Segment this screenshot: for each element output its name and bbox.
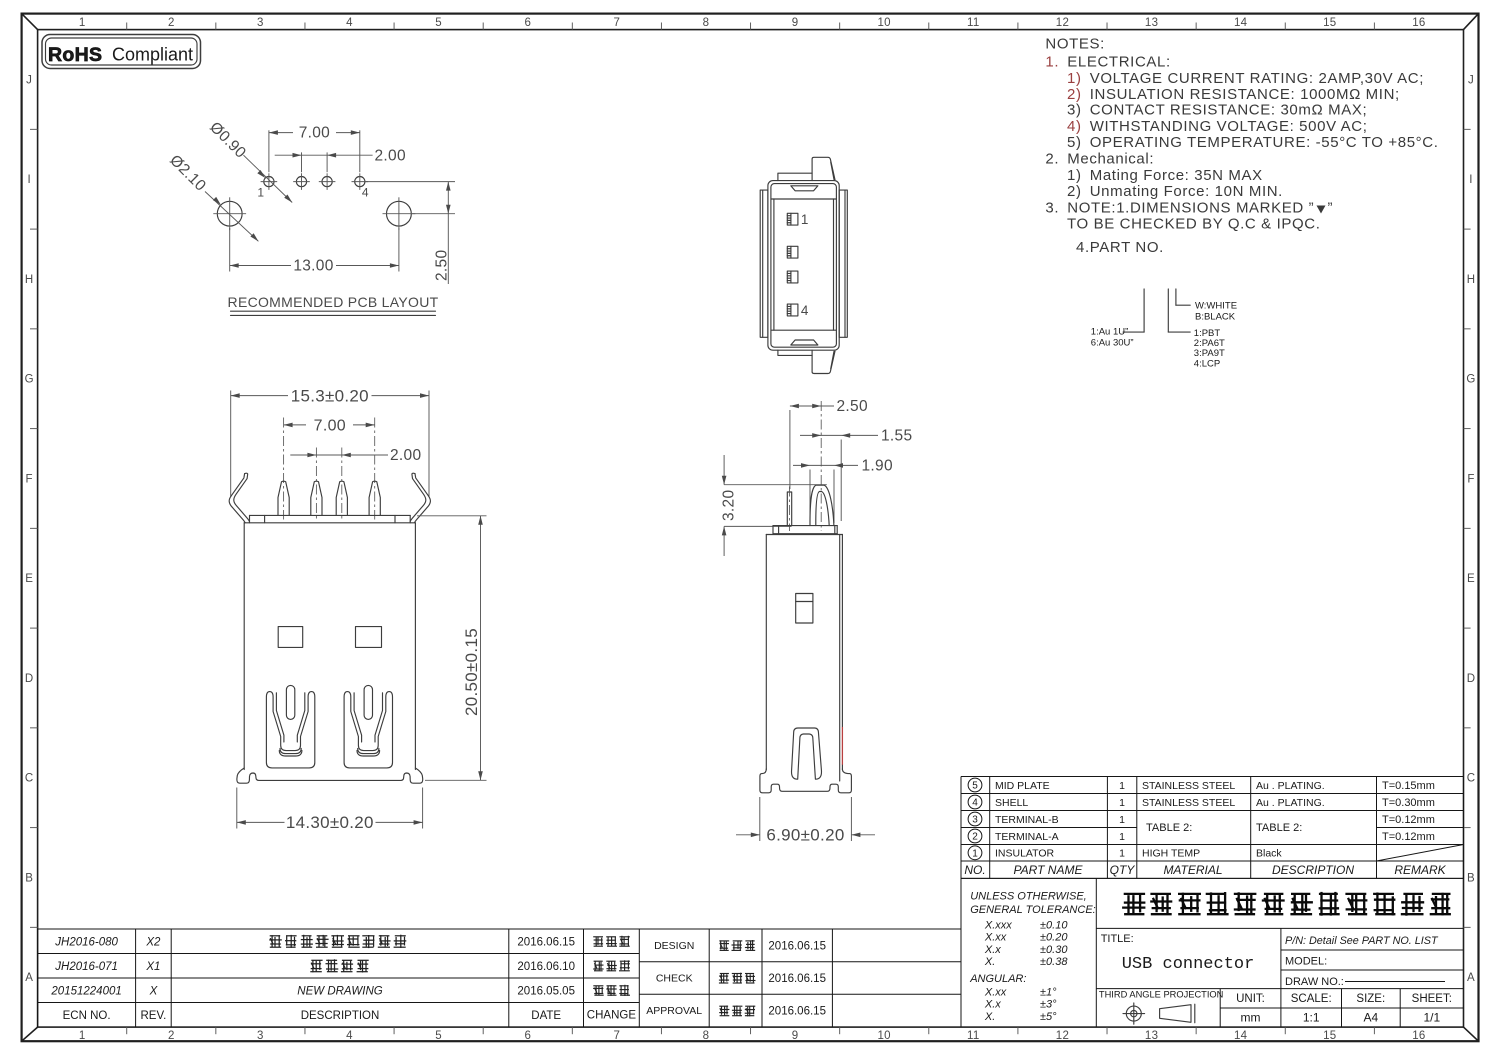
svg-text:Compliant: Compliant	[112, 45, 193, 65]
svg-text:14.30±0.20: 14.30±0.20	[286, 813, 374, 832]
svg-text:THIRD ANGLE PROJECTION: THIRD ANGLE PROJECTION	[1099, 989, 1224, 999]
svg-text:3) CONTACT RESISTANCE: 30mΩ MA: 3) CONTACT RESISTANCE: 30mΩ MAX;	[1067, 102, 1367, 119]
svg-text:2.50: 2.50	[434, 250, 451, 281]
svg-text:±3°: ±3°	[1040, 999, 1057, 1011]
svg-text:APPROVAL: APPROVAL	[646, 1005, 702, 1017]
svg-text:B: B	[1467, 873, 1475, 885]
svg-text:TABLE 2:: TABLE 2:	[1256, 822, 1302, 834]
remark diagonal	[1377, 845, 1464, 862]
part number legend	[1143, 289, 1145, 332]
svg-text:2.00: 2.00	[375, 147, 406, 164]
check-mark triangle symbol	[1317, 206, 1326, 214]
svg-text:4: 4	[972, 798, 978, 809]
svg-text:TO BE CHECKED BY Q.C & IPQC.: TO BE CHECKED BY Q.C & IPQC.	[1067, 216, 1321, 233]
svg-text:1: 1	[79, 17, 86, 29]
svg-text:±0.30: ±0.30	[1040, 944, 1068, 956]
svg-text:16: 16	[1412, 1030, 1425, 1042]
svg-text:7: 7	[614, 17, 621, 29]
svg-text:I: I	[1469, 174, 1473, 186]
dim 6.90±0.20	[759, 797, 761, 841]
mounting holes 2.10	[217, 201, 242, 226]
dim 1.55	[840, 440, 842, 522]
svg-text:X.: X.	[984, 1011, 995, 1023]
svg-text:RoHS: RoHS	[48, 44, 102, 66]
shell window holes	[278, 627, 303, 648]
svg-text:2016.06.15: 2016.06.15	[768, 973, 826, 985]
svg-text:2: 2	[168, 17, 175, 29]
svg-text:W:WHITE: W:WHITE	[1195, 301, 1237, 312]
svg-text:2) Unmating Force: 10N MIN.: 2) Unmating Force: 10N MIN.	[1067, 183, 1283, 200]
svg-text:1: 1	[1119, 814, 1125, 826]
svg-text:1/1: 1/1	[1423, 1011, 1440, 1025]
svg-text:JH2016-071: JH2016-071	[54, 961, 118, 973]
svg-text:14: 14	[1234, 17, 1248, 29]
svg-text:9: 9	[792, 17, 799, 29]
svg-text:6.90±0.20: 6.90±0.20	[766, 825, 844, 844]
svg-text:SHELL: SHELL	[995, 797, 1028, 809]
svg-text:15.3±0.20: 15.3±0.20	[291, 386, 369, 405]
svg-text:2: 2	[972, 832, 978, 843]
dim 20.50±0.15	[417, 515, 487, 517]
svg-text:X.xx: X.xx	[984, 987, 1007, 999]
body sides	[243, 523, 245, 770]
dim 1.90	[809, 470, 811, 524]
svg-text:2016.05.05: 2016.05.05	[517, 985, 575, 997]
svg-text:11: 11	[967, 17, 980, 29]
svg-text:X: X	[149, 985, 159, 997]
svg-text:J: J	[1468, 75, 1474, 87]
top plate strip	[250, 514, 411, 516]
svg-text:1: 1	[801, 212, 809, 227]
top notch	[791, 186, 818, 191]
svg-text:DESCRIPTION: DESCRIPTION	[301, 1010, 380, 1022]
svg-text:3: 3	[972, 815, 978, 826]
svg-text:2.00: 2.00	[390, 447, 421, 464]
svg-text:15: 15	[1323, 1030, 1336, 1042]
svg-text:REV.: REV.	[141, 1010, 167, 1022]
crown left	[266, 692, 314, 768]
svg-text:5: 5	[972, 781, 978, 792]
dim 3.20	[724, 484, 827, 486]
svg-text:6: 6	[524, 1030, 531, 1042]
svg-text:10: 10	[877, 1030, 890, 1042]
svg-text:Au . PLATING.: Au . PLATING.	[1256, 780, 1325, 792]
svg-text:D: D	[1467, 673, 1476, 685]
terminal pins (front)	[278, 481, 289, 515]
svg-text:4:LCP: 4:LCP	[1194, 358, 1220, 369]
svg-text:MATERIAL: MATERIAL	[1163, 863, 1222, 877]
bottom outline with feet	[237, 768, 423, 783]
svg-text:B:BLACK: B:BLACK	[1195, 312, 1236, 323]
svg-text:2016.06.15: 2016.06.15	[768, 1006, 826, 1018]
left shell hook	[234, 473, 250, 521]
svg-text:NO.: NO.	[964, 863, 985, 877]
svg-text:INSULATOR: INSULATOR	[995, 848, 1055, 860]
svg-text:±0.10: ±0.10	[1040, 919, 1068, 931]
left side tab	[760, 190, 768, 337]
dim 14.30±0.20	[236, 788, 238, 829]
svg-text:2) INSULATION RESISTANCE: 1000: 2) INSULATION RESISTANCE: 1000MΩ MIN;	[1067, 86, 1400, 103]
svg-text:Au . PLATING.: Au . PLATING.	[1256, 797, 1325, 809]
dim 2.50 (side)	[789, 410, 791, 489]
svg-text:13: 13	[1145, 1030, 1158, 1042]
side hook arch	[810, 485, 834, 525]
side body hole	[796, 594, 813, 624]
svg-text:C: C	[1467, 773, 1476, 785]
svg-text:REMARK: REMARK	[1394, 863, 1446, 877]
svg-text:5) OPERATING TEMPERATURE: -55°: 5) OPERATING TEMPERATURE: -55°C TO +85°C…	[1067, 134, 1439, 151]
svg-text:UNLESS OTHERWISE,: UNLESS OTHERWISE,	[970, 890, 1087, 902]
right shell hook	[410, 473, 426, 521]
svg-text:7: 7	[614, 1030, 621, 1042]
svg-text:NOTES:: NOTES:	[1045, 36, 1105, 53]
svg-text:1) Mating Force: 35N MAX: 1) Mating Force: 35N MAX	[1067, 167, 1263, 184]
red checked edge	[841, 727, 843, 765]
svg-text:X.x: X.x	[984, 999, 1001, 1011]
svg-text:4: 4	[346, 17, 353, 29]
svg-text:B: B	[25, 873, 33, 885]
bottom latch tab	[812, 350, 835, 373]
svg-text:X.x: X.x	[984, 944, 1001, 956]
svg-text:±1°: ±1°	[1040, 987, 1057, 999]
outer shell rounded	[768, 181, 839, 351]
svg-text:7.00: 7.00	[314, 417, 346, 434]
svg-text:J: J	[26, 75, 32, 87]
svg-text:mm: mm	[1241, 1011, 1261, 1025]
svg-text:MID PLATE: MID PLATE	[995, 780, 1050, 792]
bottom step	[778, 350, 812, 355]
svg-text:E: E	[1467, 573, 1475, 585]
svg-text:T=0.12mm: T=0.12mm	[1382, 814, 1435, 826]
dim 2.50 (pcb)	[366, 181, 456, 183]
svg-text:13: 13	[1145, 17, 1158, 29]
svg-text:13.00: 13.00	[293, 258, 333, 275]
dim 15.3±0.20	[230, 391, 232, 498]
svg-text:11: 11	[967, 1030, 980, 1042]
svg-text:1: 1	[1119, 848, 1125, 860]
svg-text:8: 8	[703, 1030, 710, 1042]
svg-text:1: 1	[1119, 780, 1125, 792]
svg-text:G: G	[1466, 374, 1475, 386]
svg-text:1: 1	[972, 848, 978, 859]
svg-text:GENERAL TOLERANCE:: GENERAL TOLERANCE:	[970, 904, 1096, 916]
dim 13.00 (pcb)	[229, 228, 231, 272]
svg-text:T=0.12mm: T=0.12mm	[1382, 831, 1435, 843]
svg-text:1.90: 1.90	[862, 457, 893, 474]
svg-text:DESCRIPTION: DESCRIPTION	[1272, 863, 1354, 877]
svg-text:2016.06.15: 2016.06.15	[768, 940, 826, 952]
side tent spring	[792, 728, 822, 779]
svg-text:SIZE:: SIZE:	[1356, 993, 1385, 1005]
svg-text:4: 4	[801, 303, 809, 318]
bottom notch	[791, 340, 818, 345]
svg-text:20.50±0.15: 20.50±0.15	[462, 628, 481, 716]
svg-text:H: H	[25, 274, 34, 286]
svg-text:2016.06.10: 2016.06.10	[517, 961, 575, 973]
svg-text:9: 9	[792, 1030, 799, 1042]
dim 2.00 (front)	[290, 454, 388, 456]
svg-text:F: F	[1467, 474, 1474, 486]
svg-text:SCALE:: SCALE:	[1291, 993, 1332, 1005]
svg-text:I: I	[27, 174, 31, 186]
svg-text:UNIT:: UNIT:	[1236, 993, 1265, 1005]
svg-text:8: 8	[703, 17, 710, 29]
svg-text:20151224001: 20151224001	[50, 985, 121, 997]
svg-text:1: 1	[1119, 831, 1125, 843]
svg-text:G: G	[25, 374, 34, 386]
svg-text:DATE: DATE	[531, 1010, 561, 1022]
svg-text:4) WITHSTANDING VOLTAGE: 500V: 4) WITHSTANDING VOLTAGE: 500V AC;	[1067, 118, 1368, 135]
svg-text:1) VOLTAGE CURRENT RATING: 2AM: 1) VOLTAGE CURRENT RATING: 2AMP,30V AC;	[1067, 70, 1424, 87]
svg-text:7.00: 7.00	[299, 125, 330, 142]
svg-text:A: A	[25, 972, 33, 984]
svg-text:STAINLESS STEEL: STAINLESS STEEL	[1142, 797, 1235, 809]
title row	[1280, 928, 1282, 988]
svg-text:RECOMMENDED PCB LAYOUT: RECOMMENDED PCB LAYOUT	[228, 294, 439, 310]
svg-text:X.: X.	[984, 956, 995, 968]
svg-text:5: 5	[435, 17, 442, 29]
svg-text:A4: A4	[1363, 1011, 1378, 1025]
side bottom outline	[760, 769, 852, 793]
svg-text:2.50: 2.50	[837, 398, 868, 415]
company name (chinese)	[1096, 927, 1463, 929]
svg-text:1: 1	[79, 1030, 86, 1042]
side pin	[787, 492, 791, 526]
svg-text:X2: X2	[145, 936, 161, 948]
svg-text:4: 4	[346, 1030, 353, 1042]
svg-text:1: 1	[1119, 797, 1125, 809]
svg-text:X1: X1	[145, 961, 160, 973]
svg-text:3: 3	[257, 17, 264, 29]
svg-text:C: C	[25, 773, 34, 785]
dim 7.00 (front)	[284, 424, 306, 426]
svg-text:ANGULAR:: ANGULAR:	[969, 973, 1026, 985]
svg-text:TITLE:: TITLE:	[1101, 933, 1134, 945]
svg-text:F: F	[26, 474, 33, 486]
svg-text:1. ELECTRICAL:: 1. ELECTRICAL:	[1045, 54, 1170, 71]
right side tab	[839, 190, 847, 337]
svg-text:T=0.30mm: T=0.30mm	[1382, 797, 1435, 809]
svg-text:6: 6	[524, 17, 531, 29]
svg-text:D: D	[25, 673, 34, 685]
svg-text:4.PART NO.: 4.PART NO.	[1076, 239, 1164, 256]
top latch tab	[812, 157, 835, 180]
svg-text:QTY: QTY	[1110, 863, 1136, 877]
svg-text:CHANGE: CHANGE	[587, 1010, 637, 1022]
svg-text:2016.06.15: 2016.06.15	[517, 936, 575, 948]
svg-text:USB connector: USB connector	[1122, 955, 1255, 974]
svg-text:TABLE 2:: TABLE 2:	[1146, 822, 1192, 834]
svg-text:14: 14	[1234, 1030, 1248, 1042]
parts list table	[961, 776, 1464, 778]
svg-text:6:Au 30U”: 6:Au 30U”	[1091, 338, 1134, 349]
svg-text:12: 12	[1056, 1030, 1069, 1042]
svg-text:5: 5	[435, 1030, 442, 1042]
svg-text:CHECK: CHECK	[656, 973, 693, 985]
svg-text:3. NOTE:1.DIMENSIONS MARKED ”: 3. NOTE:1.DIMENSIONS MARKED ”	[1045, 199, 1314, 216]
svg-text:STAINLESS STEEL: STAINLESS STEEL	[1142, 780, 1235, 792]
svg-text:H: H	[1467, 274, 1476, 286]
dim 2.00 (pcb)	[301, 152, 303, 172]
bottom row: projection/unit/scale	[1219, 989, 1221, 1028]
svg-text:1.55: 1.55	[881, 427, 912, 444]
svg-text:±0.20: ±0.20	[1040, 932, 1068, 944]
svg-text:TERMINAL-A: TERMINAL-A	[995, 831, 1059, 843]
pin centerlines	[283, 418, 285, 520]
svg-text:DRAW NO.:: DRAW NO.:	[1285, 976, 1344, 988]
svg-text:MODEL:: MODEL:	[1285, 956, 1327, 968]
title block	[960, 777, 962, 1028]
top step	[778, 173, 812, 180]
svg-text:1:1: 1:1	[1303, 1011, 1320, 1025]
svg-text:1:Au 1U”: 1:Au 1U”	[1091, 327, 1129, 338]
RoHS Compliant badge	[42, 35, 201, 69]
svg-text:16: 16	[1412, 17, 1425, 29]
svg-text:DESIGN: DESIGN	[654, 940, 694, 952]
svg-text:P/N: Detail See PART NO. LIST: P/N: Detail See PART NO. LIST	[1285, 935, 1439, 947]
svg-text:10: 10	[877, 17, 890, 29]
projection symbol circle	[1126, 1006, 1141, 1021]
svg-text:3.20: 3.20	[721, 490, 738, 521]
svg-text:PART NAME: PART NAME	[1014, 863, 1084, 877]
svg-text:ECN NO.: ECN NO.	[63, 1010, 111, 1022]
svg-text:E: E	[25, 573, 33, 585]
insulator face lines	[771, 198, 836, 200]
svg-text:15: 15	[1323, 17, 1336, 29]
dim 7.00 (pcb)	[268, 130, 270, 172]
side body	[766, 534, 842, 536]
contacts 1-4	[787, 213, 798, 225]
svg-text:X.xx: X.xx	[984, 932, 1007, 944]
svg-text:1: 1	[257, 186, 264, 200]
revision history table	[38, 928, 961, 930]
svg-text:A: A	[1467, 972, 1475, 984]
svg-text:Black: Black	[1256, 848, 1282, 860]
svg-text:NEW DRAWING: NEW DRAWING	[297, 985, 382, 997]
svg-text:TERMINAL-B: TERMINAL-B	[995, 814, 1059, 826]
side top plate	[773, 525, 837, 527]
svg-text:HIGH TEMP: HIGH TEMP	[1142, 848, 1200, 860]
svg-text:SHEET:: SHEET:	[1412, 993, 1452, 1005]
svg-text:4: 4	[362, 186, 369, 200]
crown right	[344, 692, 392, 768]
svg-text:12: 12	[1056, 17, 1069, 29]
projection symbol cone	[1160, 1005, 1191, 1023]
svg-text:±5°: ±5°	[1040, 1011, 1057, 1023]
svg-text:2. Mechanical:: 2. Mechanical:	[1045, 151, 1154, 168]
svg-text:X.xxx: X.xxx	[984, 919, 1012, 931]
svg-text:±0.38: ±0.38	[1040, 956, 1068, 968]
svg-text:T=0.15mm: T=0.15mm	[1382, 780, 1435, 792]
svg-text:3: 3	[257, 1030, 264, 1042]
svg-text:JH2016-080: JH2016-080	[54, 936, 118, 948]
plated holes 1-4	[264, 177, 274, 187]
svg-text:2: 2	[168, 1030, 175, 1042]
svg-text:”: ”	[1328, 199, 1334, 216]
